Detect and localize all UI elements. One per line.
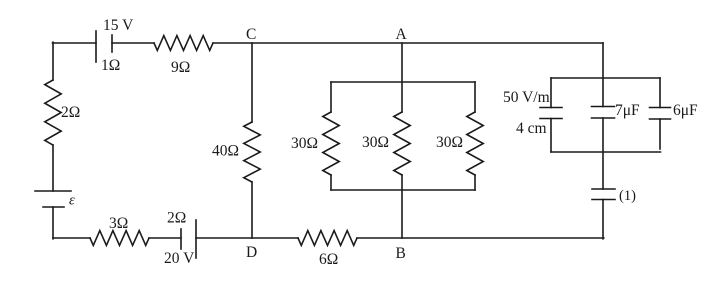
- svg-text:A: A: [396, 26, 408, 43]
- label 30&#937; left: [291, 135, 318, 152]
- wire parallel box bottom rail: [331, 189, 475, 191]
- wire top-left from corner to 15 V battery: [53, 42, 97, 44]
- label 4 cm: [516, 120, 547, 137]
- capacitor C3 6 uF: [650, 108, 671, 120]
- wire right vertical from top rail: [602, 43, 604, 107]
- wire 40 ohm down to node D: [251, 182, 253, 238]
- label 2&#937;: [61, 104, 80, 121]
- label 1&#937;: [101, 57, 120, 74]
- wire epsilon to bottom-left corner: [52, 207, 54, 239]
- resistor R 30 ohm right: [467, 112, 483, 175]
- svg-text:20 V: 20 V: [164, 250, 195, 267]
- node D label: [246, 244, 257, 261]
- svg-text:30Ω: 30Ω: [291, 135, 318, 152]
- resistor R 9 ohm: [154, 36, 213, 51]
- wire cap box right lower stub: [659, 119, 661, 149]
- wire cap box left to bottom rail: [550, 119, 552, 153]
- svg-text:B: B: [396, 245, 406, 262]
- wire cap box left drop: [550, 78, 552, 108]
- wire parallel box top rail: [331, 81, 475, 83]
- wire 20 V battery to node D: [196, 237, 298, 239]
- wire middle resistor to node B: [401, 175, 403, 238]
- node A label: [396, 26, 408, 43]
- svg-text:1Ω: 1Ω: [101, 57, 120, 74]
- resistor R 40 ohm: [244, 122, 260, 182]
- resistor R 30 ohm middle: [394, 112, 410, 175]
- svg-text:2Ω: 2Ω: [61, 104, 80, 121]
- label epsilon: [69, 193, 75, 209]
- wire 6 ohm to node B: [357, 237, 604, 239]
- svg-text:3Ω: 3Ω: [109, 215, 128, 232]
- svg-text:30Ω: 30Ω: [362, 134, 389, 151]
- label 40&#937;: [212, 143, 239, 160]
- svg-text:40Ω: 40Ω: [212, 143, 239, 160]
- resistor R 3 ohm: [90, 231, 149, 246]
- resistor R 6 ohm: [298, 231, 357, 246]
- capacitor C2 7 uF: [592, 107, 615, 119]
- wire capacitor box top rail: [551, 77, 660, 79]
- battery B1 15 V (1 ohm internal): [96, 31, 112, 62]
- svg-text:ε: ε: [69, 193, 75, 209]
- node C label: [246, 26, 256, 43]
- wire box left drop: [330, 82, 332, 112]
- label 6&#937;: [319, 251, 338, 268]
- wire 3 ohm to 20 V battery: [149, 237, 181, 239]
- label 7&#956;F: [615, 102, 640, 119]
- wire capacitor box bottom rail: [551, 151, 661, 153]
- capacitor C1 (1): [592, 189, 615, 200]
- svg-text:2Ω: 2Ω: [167, 210, 186, 227]
- capacitor C-left (50 V/m, 4 cm): [540, 108, 562, 119]
- wire left vertical top: [52, 42, 54, 80]
- wire battery to resistor 9 ohm: [112, 42, 154, 44]
- wire top rail C-A segment: [213, 42, 603, 44]
- label 15 V: [103, 17, 134, 34]
- label 30&#937; middle: [362, 134, 389, 151]
- label 30&#937; right: [436, 134, 463, 151]
- label 6&#956;F: [673, 102, 698, 119]
- label 9&#937;: [171, 59, 190, 76]
- wire 2 ohm to battery epsilon: [52, 145, 54, 191]
- svg-text:50 V/m: 50 V/m: [503, 89, 550, 106]
- wire box left to bottom rail: [330, 175, 332, 190]
- label 50 V/m: [503, 89, 550, 106]
- label 2&#937; internal: [167, 210, 186, 227]
- wire bottom-left corner to 3 ohm: [53, 237, 90, 239]
- node B label: [396, 245, 406, 262]
- wire box right to bottom rail: [474, 175, 476, 190]
- label 20 V: [164, 250, 195, 267]
- svg-text:6Ω: 6Ω: [319, 251, 338, 268]
- svg-text:4 cm: 4 cm: [516, 120, 547, 137]
- wire cap box right drop: [659, 78, 661, 108]
- label 3&#937;: [109, 215, 128, 232]
- wire (1) capacitor to bottom rail: [602, 200, 604, 239]
- svg-text:6μF: 6μF: [673, 102, 698, 119]
- svg-text:7μF: 7μF: [615, 102, 640, 119]
- svg-text:C: C: [246, 26, 256, 43]
- svg-text:9Ω: 9Ω: [171, 59, 190, 76]
- resistor R 30 ohm left: [323, 112, 339, 175]
- resistor R 2 ohm: [45, 80, 61, 145]
- battery B2 20 V (2 ohm internal): [181, 220, 196, 258]
- wire node C down to 40 ohm: [251, 43, 253, 122]
- svg-text:(1): (1): [619, 188, 636, 204]
- wire box right drop: [474, 82, 476, 112]
- label (1): [619, 188, 636, 204]
- svg-text:30Ω: 30Ω: [436, 134, 463, 151]
- svg-text:D: D: [246, 244, 257, 261]
- battery epsilon: [35, 191, 71, 207]
- wire node A down to box: [401, 43, 403, 112]
- svg-text:15 V: 15 V: [103, 17, 134, 34]
- wire 7uF to (1) capacitor: [602, 118, 604, 189]
